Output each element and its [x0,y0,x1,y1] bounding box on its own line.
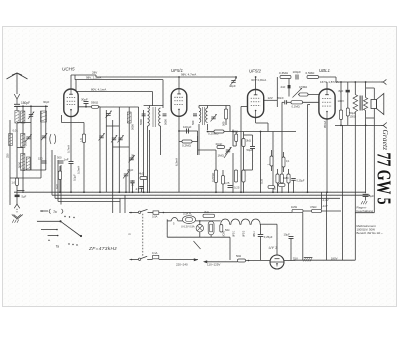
svg-text:0,3MΩ: 0,3MΩ [279,71,289,75]
svg-text:30pF: 30pF [81,97,88,101]
svg-text:UBL1: UBL1 [319,68,331,73]
svg-text:Ta: Ta [53,210,57,214]
svg-text:100µF: 100µF [183,125,192,129]
svg-text:5000: 5000 [131,124,135,130]
svg-text:0,25µF: 0,25µF [297,180,305,183]
svg-text:47kΩ: 47kΩ [310,205,317,209]
svg-text:500: 500 [57,156,62,160]
svg-text:250: 250 [6,153,10,158]
svg-text:5000: 5000 [139,119,143,125]
svg-text:5µF: 5µF [369,194,374,198]
svg-text:6,3mA: 6,3mA [175,158,179,166]
svg-text:500: 500 [191,120,195,125]
svg-text:UCH5: UCH5 [62,67,75,72]
svg-text:0,25: 0,25 [260,178,264,184]
svg-text:1MΩ: 1MΩ [218,154,225,158]
svg-text:95mA: 95mA [323,121,327,128]
svg-text:1MΩ: 1MΩ [291,205,297,209]
svg-text:0,1MΩ: 0,1MΩ [292,105,300,109]
svg-text:UF5/1: UF5/1 [234,230,236,237]
svg-text:0,2MΩ: 0,2MΩ [182,144,192,148]
svg-text:110~125V: 110~125V [207,262,220,266]
svg-text:180pF: 180pF [21,101,30,105]
svg-text:50nF: 50nF [278,96,285,100]
svg-text:5000: 5000 [17,161,21,168]
svg-text:0,3mA: 0,3mA [77,166,81,174]
svg-text:UF5/2: UF5/2 [244,230,246,237]
svg-text:0,5A: 0,5A [152,214,158,218]
svg-text:U 6,3V 0,9A: U 6,3V 0,9A [181,225,195,228]
svg-text:0,25MΩ: 0,25MΩ [211,173,215,182]
svg-text:1kΩ: 1kΩ [55,184,59,189]
svg-text:4,25: 4,25 [224,181,230,185]
svg-text:50Ω: 50Ω [236,254,241,258]
svg-text:12V: 12V [268,96,273,100]
svg-text:UBL1: UBL1 [254,231,256,237]
svg-text:98V, 2,1mA: 98V, 2,1mA [86,76,101,80]
svg-text:1,6: 1,6 [79,138,83,142]
svg-text:0,1µF: 0,1µF [73,174,77,181]
svg-text:77 GW 5: 77 GW 5 [373,153,395,205]
svg-text:10µF: 10µF [284,232,291,236]
svg-text:20nF: 20nF [216,142,223,146]
svg-text:2kΩ: 2kΩ [204,210,209,214]
svg-text:25V: 25V [293,256,298,260]
svg-text:2nF: 2nF [281,85,286,89]
svg-text:5000: 5000 [164,119,168,125]
svg-text:beschaltung: beschaltung [357,209,374,213]
svg-text:ZF=473kHz: ZF=473kHz [88,246,117,252]
svg-text:30pF: 30pF [43,100,50,104]
svg-text:1,6: 1,6 [12,182,16,185]
svg-text:100V: 100V [338,99,345,103]
svg-text:Graetz: Graetz [381,130,389,151]
svg-text:150: 150 [38,157,43,161]
svg-text:5µF: 5µF [22,194,27,198]
svg-text:3kΩ: 3kΩ [246,139,251,143]
svg-text:Bereich 4W bis 1Ω ~: Bereich 4W bis 1Ω ~ [357,231,384,235]
svg-text:4kΩ: 4kΩ [139,172,144,176]
svg-text:20pF: 20pF [127,168,134,172]
svg-text:50Ω: 50Ω [225,229,230,232]
svg-text:3CV 0,8mA: 3CV 0,8mA [251,78,266,82]
svg-text:28V: 28V [92,71,97,75]
svg-text:0,25: 0,25 [234,186,240,190]
svg-text:50µF: 50µF [247,148,254,152]
svg-text:590Ω: 590Ω [91,100,99,104]
svg-text:100pF: 100pF [293,70,302,74]
svg-text:0,5MΩ: 0,5MΩ [306,71,316,75]
svg-text:Ta: Ta [56,245,60,249]
svg-text:0,3A PL: 0,3A PL [183,212,192,215]
svg-text:8µF: 8µF [339,89,344,93]
svg-text:1MΩ: 1MΩ [283,176,289,180]
svg-text:500: 500 [221,121,225,126]
svg-text:4,5: 4,5 [136,187,140,191]
svg-text:40pF: 40pF [229,84,236,88]
svg-text:-1,2V: -1,2V [322,198,329,202]
svg-text:2000: 2000 [23,139,27,146]
svg-text:1nF: 1nF [64,158,69,162]
svg-text:220~240: 220~240 [176,262,188,266]
svg-text:80V, 4,1mA: 80V, 4,1mA [91,87,106,91]
svg-text:UY 3: UY 3 [269,245,279,250]
svg-text:0,25µF: 0,25µF [264,235,273,239]
svg-text:0,1A: 0,1A [152,251,158,255]
svg-text:0,5MΩ: 0,5MΩ [299,85,307,89]
svg-text:D: D [128,233,132,235]
svg-text:0,01: 0,01 [13,129,19,133]
svg-text:180V: 180V [331,257,338,261]
svg-text:98V, 4,7mA: 98V, 4,7mA [181,72,196,76]
svg-text:0,7mA: 0,7mA [67,145,71,153]
svg-text:UF5/2: UF5/2 [249,69,262,74]
